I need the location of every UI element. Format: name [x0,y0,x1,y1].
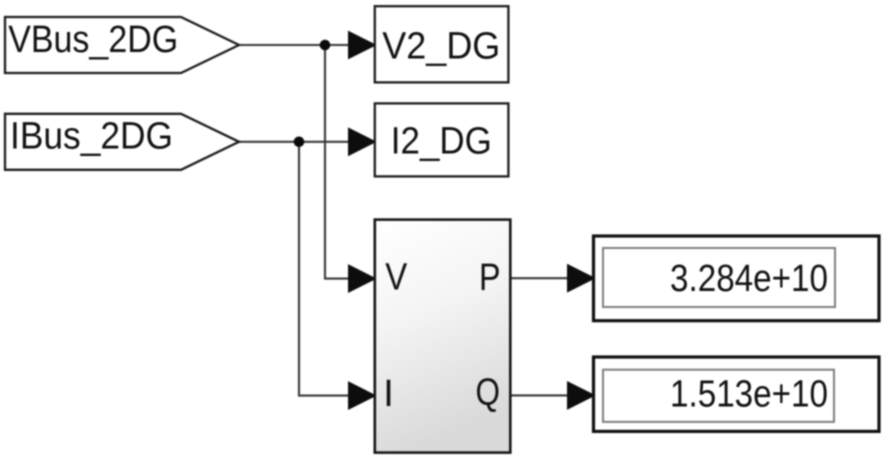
Goto block I2_DG [375,103,509,176]
wire branch vertical from node B down to subsystem I input [299,142,352,396]
svg-text:V2_DG: V2_DG [382,25,500,67]
svg-text:3.284e+10: 3.284e+10 [670,258,828,300]
wire from subsystem P output to Display1 [510,277,570,279]
node B junction dot on IBus wire [294,137,305,148]
arrowhead into Display2 [568,383,594,409]
arrowhead into I2_DG [349,129,375,155]
arrowhead into Display1 [568,265,594,291]
svg-text:1.513e+10: 1.513e+10 [670,374,828,416]
From tag IBus_2DG [5,114,239,170]
arrowhead into subsystem I input [349,383,375,409]
Display block value 1.513e+10 [594,357,880,431]
arrowhead into V2_DG [349,32,375,58]
svg-text:V: V [385,257,408,299]
wire from VBus_2DG tag to V2_DG Goto [239,44,352,46]
wire from subsystem Q output to Display2 [510,394,570,396]
svg-text:P: P [479,257,501,299]
From tag VBus_2DG [5,17,239,73]
Display block value 3.284e+10 [594,236,880,321]
svg-text:Q: Q [476,372,501,414]
node A junction dot on VBus wire [320,40,331,51]
wire branch vertical from node A down to subsystem V input [325,45,352,279]
svg-text:I2_DG: I2_DG [391,120,492,162]
svg-text:IBus_2DG: IBus_2DG [10,116,173,158]
wire from IBus_2DG tag to I2_DG Goto [239,141,352,143]
svg-text:I: I [383,373,394,415]
svg-text:VBus_2DG: VBus_2DG [8,19,178,61]
arrowhead into subsystem V input [349,266,375,292]
subsystem block (V,I inputs; P,Q outputs) [375,220,511,453]
Goto block V2_DG [375,6,509,82]
